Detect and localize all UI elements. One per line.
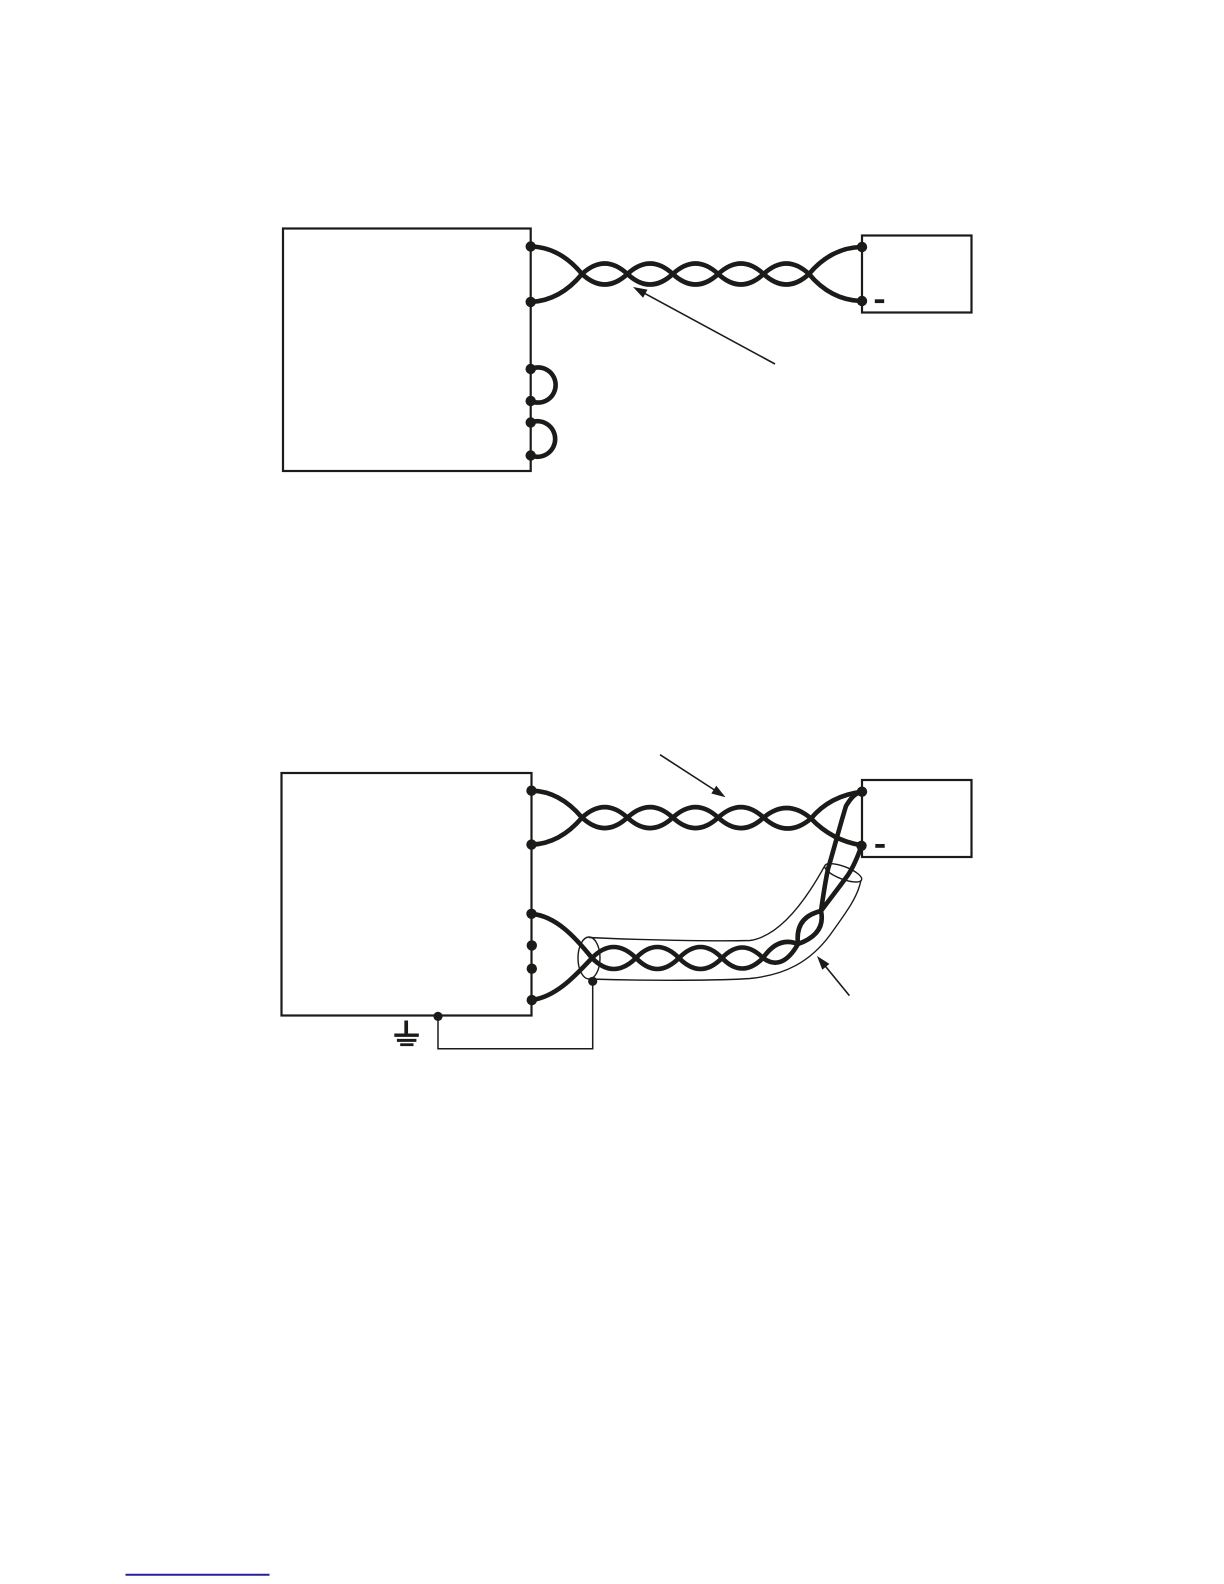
sense jumper loop 1 (+S to +V) [531,367,556,402]
junction dot on U2 bottom edge (chassis ground tie) [433,1012,442,1021]
sense jumper loop 2 (-S to -V) [531,421,555,457]
terminal dot: jumper1 lower [526,396,536,406]
power supply box U1 (top diagram large box) [283,229,531,472]
terminal dot: U2 unused 2 [527,964,537,974]
power supply box U2 (bottom diagram large box) [282,773,532,1016]
terminal dot: LD2 + input [857,787,867,797]
terminal dot: U2 unused 1 [527,940,537,950]
minus label on load box LD2 [875,844,884,848]
terminal dot: LD1 - input [857,296,867,306]
load box LD1 (top diagram small box) [862,236,972,313]
terminal dot: jumper1 upper [526,364,536,374]
terminal dot: U2 return output [526,839,536,849]
twisted pair wire A (top diagram, +V conductor) [531,247,861,285]
minus label on load box LD1 [875,299,884,303]
terminal dot: U1 return output [526,297,536,307]
terminal dot: LD2 - input [856,841,866,851]
callout arrow to shield (bottom diagram) [817,956,849,996]
terminal dot: U2 +V output [526,786,536,796]
shield tube top wall [589,866,825,941]
callout arrow to twisted pair (bottom diagram) [660,755,726,798]
junction dot: shield drain connection [588,977,597,986]
terminal dot: U2 -sense [527,995,537,1005]
shield tube entrance ellipse [578,937,600,979]
terminal dot: jumper2 upper [526,417,536,427]
shield tube end ellipse [823,860,864,886]
shield tube bottom wall [589,880,861,980]
twisted pair wire B2 (bottom diagram power pair, return conductor) [532,807,862,845]
terminal dot: U1 +V output [526,241,536,251]
terminal dot: U2 +sense [526,909,536,919]
terminal dot: jumper2 lower [526,450,536,460]
twisted pair wire A2 (bottom diagram power pair, +V conductor) [532,791,863,829]
shielded pair wire S1 (sense + conductor) [532,792,863,969]
earth ground symbol [394,1021,419,1045]
callout arrow to twisted pair (top diagram) [633,287,775,364]
shielded pair wire S2 (sense - conductor) [532,846,862,1000]
footer rule (blue) [126,1574,270,1576]
ground wire from U2 to shield [438,981,593,1049]
terminal dot: LD1 + input [857,242,867,252]
twisted pair wire B (top diagram, return conductor) [531,264,861,302]
load box LD2 (bottom diagram small box) [862,780,972,857]
